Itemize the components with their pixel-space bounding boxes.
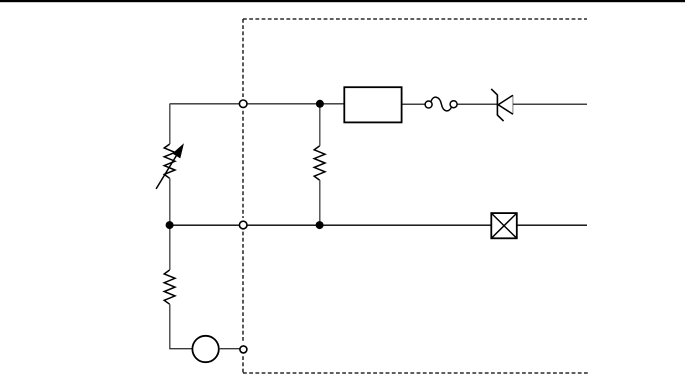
variable resistor	[156, 144, 183, 189]
wire left vertical upper	[169, 104, 171, 144]
source circle	[192, 336, 218, 362]
wire fuse to zener	[457, 103, 497, 105]
wire from source to terminal	[219, 348, 240, 350]
zener diode	[491, 89, 513, 121]
dashed enclosure left edge	[242, 19, 244, 373]
fuse / breaker	[425, 97, 457, 111]
dashed enclosure top edge	[243, 18, 587, 20]
wire lower left vertical bottom	[170, 304, 193, 349]
resistor center vertical wire bottom	[319, 180, 321, 225]
wire lower left vertical upper	[169, 225, 171, 270]
wire middle right of lamp	[517, 224, 587, 226]
wire box to fuse	[401, 103, 425, 105]
terminal middle on dashed line	[239, 221, 247, 229]
junction dot top	[316, 100, 324, 108]
middle horizontal wire	[170, 224, 491, 226]
junction dot center middle	[316, 221, 324, 229]
wire top left horizontal	[170, 103, 345, 105]
lamp box with cross	[491, 213, 517, 238]
wire left vertical lower	[169, 178, 171, 225]
dashed enclosure bottom edge	[243, 372, 588, 374]
page border top	[0, 0, 685, 2]
wire zener to right	[513, 103, 587, 105]
resistor center vertical wire top	[319, 104, 321, 146]
terminal bottom	[240, 346, 247, 353]
relay coil box	[344, 87, 401, 122]
resistor lower left	[164, 270, 175, 304]
terminal top on dashed line	[239, 100, 247, 108]
junction dot left middle	[166, 221, 174, 229]
resistor center	[314, 146, 325, 180]
